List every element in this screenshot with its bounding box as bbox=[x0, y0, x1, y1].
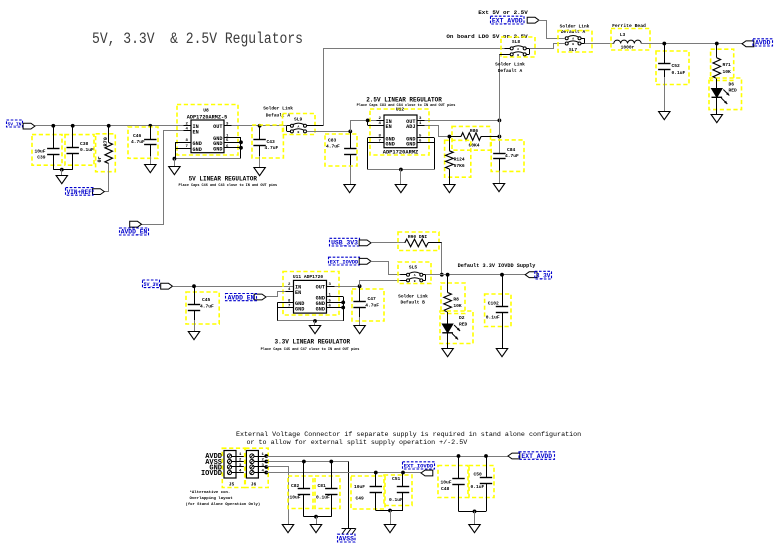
svg-text:10uF: 10uF bbox=[441, 480, 452, 486]
flag AVDD bbox=[742, 41, 754, 47]
flag EXT_IOVDD bottom bbox=[421, 470, 433, 476]
inductor L3 ferrite bead bbox=[611, 29, 650, 51]
diode D6 RED LED bbox=[709, 78, 742, 110]
node junction C43 tap bbox=[258, 124, 262, 128]
svg-text:B: B bbox=[572, 43, 574, 46]
wire SL7 out to L3 bbox=[585, 43, 614, 45]
svg-text:or to allow for external split: or to allow for external split supply op… bbox=[247, 439, 468, 447]
solder link SL5 bbox=[398, 262, 431, 284]
wire U11 OUT to SL5 B bbox=[335, 286, 360, 288]
svg-text:ADP1720ARMZ: ADP1720ARMZ bbox=[383, 149, 419, 155]
capacitor C83 bbox=[325, 134, 357, 166]
wire EXT_IOVDD to SL5 A bbox=[371, 262, 401, 275]
svg-text:Ext 5V or 2.5V: Ext 5V or 2.5V bbox=[478, 9, 528, 16]
wire C82 C81 ground rail bbox=[304, 516, 331, 518]
svg-text:D6: D6 bbox=[729, 81, 735, 87]
flag VIN+REF bbox=[93, 189, 105, 195]
wire C48 C50 ground rail bbox=[459, 511, 487, 513]
svg-text:Overlapping layout: Overlapping layout bbox=[190, 496, 234, 501]
ground for D6 bbox=[711, 115, 722, 123]
svg-text:C38: C38 bbox=[80, 141, 89, 147]
svg-text:B: B bbox=[517, 54, 519, 57]
capacitor C102 bbox=[485, 294, 511, 327]
svg-text:AVDD_EN: AVDD_EN bbox=[228, 294, 255, 301]
wire SL8 out to SL7 B bbox=[530, 44, 565, 49]
svg-text:6: 6 bbox=[226, 145, 229, 149]
svg-text:0.1uF: 0.1uF bbox=[471, 484, 485, 490]
wire L3 to AVDD flag bbox=[641, 43, 742, 45]
U8 pin 8 GND bbox=[175, 142, 191, 144]
net label IN_5V bbox=[143, 280, 160, 288]
svg-text:C83: C83 bbox=[328, 138, 337, 144]
capacitor C52 bbox=[656, 51, 689, 85]
capacitor C84 bbox=[491, 140, 524, 172]
ground for C102 bbox=[496, 349, 507, 357]
svg-text:4.7uF: 4.7uF bbox=[131, 139, 145, 145]
wire U12 OUT to 2.5V node bbox=[425, 120, 500, 122]
svg-text:RED: RED bbox=[729, 88, 738, 94]
svg-text:Solder Link: Solder Link bbox=[560, 23, 590, 29]
svg-text:4.7uF: 4.7uF bbox=[265, 145, 279, 151]
svg-text:A: A bbox=[572, 38, 574, 41]
node junction C83 tap bbox=[348, 130, 352, 134]
wire SL8 right bracket bbox=[526, 48, 529, 50]
ground for C83 bbox=[344, 185, 355, 193]
svg-text:External Voltage Connector if: External Voltage Connector if separate s… bbox=[236, 431, 581, 439]
connector J6 bbox=[245, 448, 268, 487]
net label USB_3V3 bbox=[330, 238, 360, 246]
svg-text:GND: GND bbox=[316, 306, 325, 312]
op-amp U11 regulator ADP1720 bbox=[283, 272, 339, 316]
svg-text:C46: C46 bbox=[133, 133, 142, 139]
svg-text:Default A: Default A bbox=[498, 68, 523, 74]
svg-text:U12: U12 bbox=[396, 107, 405, 113]
U12 pin 3 OUT bbox=[417, 120, 425, 122]
svg-text:SL8: SL8 bbox=[512, 39, 521, 45]
U11 pin 4 EN bbox=[286, 291, 294, 293]
node junction R70 tap bbox=[107, 124, 111, 128]
svg-text:SL7: SL7 bbox=[569, 47, 578, 53]
node junction C38 tap bbox=[71, 124, 75, 128]
wire U8 EN to AVDD_EN flag bbox=[142, 131, 184, 225]
flag USB_3V3 bbox=[359, 240, 371, 246]
solder link SL9 bbox=[283, 114, 316, 135]
wire U12 ADJ to divider bbox=[425, 126, 450, 137]
op-amp U8 regulator ADP1720ARMZ-5 bbox=[177, 105, 238, 156]
flag EXT_AVDD bottom bbox=[508, 453, 520, 459]
net label AVDD bbox=[753, 39, 773, 46]
wire C39 C38 ground rail bbox=[53, 169, 72, 171]
svg-text:GND: GND bbox=[213, 147, 222, 153]
svg-text:EN: EN bbox=[295, 290, 301, 296]
wire C49 C51 ground rail bbox=[376, 510, 403, 512]
net label AVDD_EN bbox=[120, 228, 149, 235]
U8 pin 1 GND bbox=[224, 137, 241, 139]
svg-text:Place Caps C45 and C47 close t: Place Caps C45 and C47 close to IN and O… bbox=[261, 347, 360, 352]
wire U12 right gnd bar bbox=[434, 138, 436, 170]
ground for C45 bbox=[188, 332, 199, 340]
svg-text:5V, 3.3V & 2.5V Regulators: 5V, 3.3V & 2.5V Regulators bbox=[92, 30, 303, 48]
svg-text:VIN+REF: VIN+REF bbox=[67, 189, 93, 196]
capacitor C46 bbox=[128, 127, 158, 158]
svg-text:SL9: SL9 bbox=[294, 117, 303, 123]
resistor R8 bbox=[441, 283, 465, 314]
svg-text:C81: C81 bbox=[318, 483, 327, 489]
svg-text:A: A bbox=[298, 125, 300, 128]
svg-text:4.7uF: 4.7uF bbox=[326, 143, 340, 149]
wire SL7 right bracket bbox=[581, 38, 584, 40]
svg-text:(for Stand Alone Operation Onl: (for Stand Alone Operation Only) bbox=[186, 502, 261, 507]
wire SL9 B up to U12 IN bbox=[351, 121, 377, 132]
ground for C46 bbox=[145, 165, 156, 173]
wire SL9 B out to 2.5V input bbox=[307, 131, 351, 133]
U11 pin 1 GND bbox=[327, 296, 344, 298]
capacitor C43 bbox=[252, 125, 283, 158]
wire SL9 A out up to 5V rail bbox=[307, 125, 324, 127]
svg-text:4.7uF: 4.7uF bbox=[200, 303, 214, 309]
svg-text:4.7uF: 4.7uF bbox=[505, 153, 519, 159]
net label EXT_AVDD bottom bbox=[519, 452, 555, 460]
svg-text:3_3V: 3_3V bbox=[536, 273, 551, 280]
input flag 5V_IN bbox=[23, 123, 35, 129]
wire U12 IN EN tie bbox=[367, 120, 369, 125]
wire R70 to VIN+REF flag bbox=[105, 164, 109, 192]
svg-text:6: 6 bbox=[419, 140, 422, 144]
svg-text:R86: R86 bbox=[470, 128, 479, 134]
svg-text:C47: C47 bbox=[368, 296, 377, 302]
wire USB_3V3 to R90 bbox=[371, 242, 405, 244]
svg-text:C43: C43 bbox=[267, 139, 276, 145]
svg-text:10K: 10K bbox=[723, 69, 732, 75]
net label IO_3V bbox=[535, 271, 552, 279]
svg-text:EXT_AVDD: EXT_AVDD bbox=[492, 18, 523, 25]
ground for U8 bbox=[169, 167, 180, 175]
svg-text:J5: J5 bbox=[229, 481, 235, 487]
U11 pin 8 GND bbox=[278, 302, 294, 304]
U12 pin 7 GND bbox=[368, 142, 384, 144]
input flag 3.3V section bbox=[161, 283, 173, 289]
svg-text:C52: C52 bbox=[672, 63, 681, 69]
U12 pin 5 GND bbox=[417, 137, 434, 139]
svg-text:1: 1 bbox=[329, 294, 332, 298]
diode D2 RED LED bbox=[440, 311, 473, 344]
svg-text:C49: C49 bbox=[356, 496, 365, 502]
svg-text:SL5: SL5 bbox=[409, 265, 418, 271]
svg-text:0.1uF: 0.1uF bbox=[672, 70, 686, 76]
svg-text:R124: R124 bbox=[454, 157, 465, 163]
svg-text:10K: 10K bbox=[453, 303, 462, 309]
svg-text:C51: C51 bbox=[392, 476, 401, 482]
U11 pin 5 GND bbox=[327, 302, 344, 304]
U12 pin 4 EN bbox=[368, 125, 384, 127]
wire IOVDD 3.3V rail bbox=[426, 274, 526, 276]
svg-text:3: 3 bbox=[239, 464, 242, 468]
svg-text:USB_3V3: USB_3V3 bbox=[331, 240, 358, 247]
svg-text:10uF: 10uF bbox=[290, 495, 301, 501]
svg-text:L3: L3 bbox=[620, 32, 626, 38]
svg-text:GND: GND bbox=[406, 142, 415, 148]
U11 pin 3 OUT bbox=[327, 286, 335, 288]
svg-text:C82: C82 bbox=[291, 483, 300, 489]
svg-text:57K6: 57K6 bbox=[454, 163, 465, 169]
U11 pin 7 GND bbox=[278, 307, 294, 309]
wire input to U11 IN bbox=[173, 286, 294, 288]
ground for C49 C51 bbox=[384, 525, 395, 533]
resistor R71 bbox=[711, 49, 734, 80]
U8 pin 6 GND bbox=[224, 147, 241, 149]
svg-text:5V LINEAR REGULATOR: 5V LINEAR REGULATOR bbox=[189, 176, 258, 183]
svg-text:EXT_AVDD: EXT_AVDD bbox=[521, 453, 552, 460]
U8 pin 4 EN bbox=[184, 130, 192, 132]
net label VIN+REF bbox=[66, 188, 94, 196]
svg-text:Place Caps C46 and C43 close t: Place Caps C46 and C43 close to IN and O… bbox=[178, 183, 277, 188]
ground for C84 bbox=[493, 184, 504, 192]
U12 pin 8 GND bbox=[368, 137, 384, 139]
flag EXT_AVDD bbox=[527, 17, 539, 23]
svg-text:3.3V LINEAR REGULATOR: 3.3V LINEAR REGULATOR bbox=[274, 338, 350, 345]
resistor R70 bbox=[96, 134, 116, 172]
svg-text:EN: EN bbox=[386, 124, 392, 130]
wire U8 right gnd bar bbox=[240, 137, 242, 158]
wire 5V_IN to U8 IN bbox=[35, 125, 184, 127]
ground for C43 bbox=[254, 168, 265, 176]
wire EXT_AVDD to SL7 bbox=[539, 21, 565, 39]
svg-text:EXT_IOVDD: EXT_IOVDD bbox=[404, 463, 434, 470]
ground for D2 bbox=[442, 349, 453, 357]
svg-text:GND: GND bbox=[193, 147, 202, 153]
wire 2.5V into SL8 B bbox=[499, 54, 510, 56]
svg-text:C45: C45 bbox=[202, 297, 211, 303]
svg-text:4.7uF: 4.7uF bbox=[365, 302, 379, 308]
wire U11 right gnd bar bbox=[343, 297, 345, 321]
svg-text:1000r: 1000r bbox=[621, 45, 635, 51]
U11 pin 6 GND bbox=[327, 307, 344, 309]
ground for C38 C39 bbox=[56, 176, 67, 184]
U8 pin 7 GND bbox=[175, 148, 191, 150]
svg-text:7: 7 bbox=[379, 140, 382, 144]
svg-text:ADJ: ADJ bbox=[406, 124, 415, 130]
net label AVSS bbox=[338, 534, 356, 542]
svg-text:Place Caps C83 and C84 close t: Place Caps C83 and C84 close to IN and O… bbox=[357, 103, 456, 108]
node junction C45 tap bbox=[192, 284, 196, 288]
wire U12 ground rail bbox=[368, 169, 434, 171]
svg-text:C84: C84 bbox=[507, 147, 516, 153]
ground for R124 bbox=[444, 185, 455, 193]
net label EXT_IOVDD bbox=[329, 257, 360, 265]
flag AVDD_EN 3.3V bbox=[254, 294, 266, 300]
svg-text:Solder Link: Solder Link bbox=[495, 62, 525, 68]
wire U11 left gnd bar bbox=[277, 302, 279, 321]
svg-text:0.1uF: 0.1uF bbox=[80, 147, 94, 153]
svg-text:J6: J6 bbox=[251, 481, 257, 487]
svg-text:0r: 0r bbox=[97, 156, 103, 162]
resistor R124 bbox=[445, 140, 471, 177]
svg-text:R70: R70 bbox=[103, 137, 109, 146]
svg-text:R71: R71 bbox=[723, 62, 732, 68]
svg-text:OUT: OUT bbox=[316, 285, 325, 291]
resistor R86 bbox=[452, 126, 491, 150]
solder link SL7 bbox=[558, 31, 592, 52]
resistor R90 DNI bbox=[398, 232, 439, 251]
node junction C46 tap bbox=[148, 124, 152, 128]
svg-text:AVDD_EN: AVDD_EN bbox=[121, 229, 148, 236]
svg-text:A: A bbox=[414, 274, 416, 277]
capacitor C39 bbox=[32, 135, 62, 166]
svg-text:C48: C48 bbox=[441, 486, 450, 492]
wire AVSS down to symbol bbox=[348, 462, 350, 529]
flag AVDD_EN bbox=[130, 221, 142, 227]
capacitor C51 bbox=[384, 475, 412, 506]
solder link SL8 bbox=[501, 37, 535, 57]
svg-text:5V_3V: 5V_3V bbox=[143, 282, 158, 288]
ground for U11 bbox=[309, 326, 320, 334]
capacitor C50 bbox=[469, 466, 494, 498]
op-amp U12 regulator ADP1720ARMZ bbox=[370, 109, 429, 155]
net label AVDD_EN 3.3V bbox=[226, 294, 257, 301]
capacitor C38 bbox=[65, 135, 94, 166]
svg-text:Solder Link: Solder Link bbox=[263, 105, 293, 111]
svg-text:OUT: OUT bbox=[213, 124, 222, 130]
U12 pin 2 IN bbox=[377, 120, 385, 122]
svg-text:B: B bbox=[414, 280, 416, 283]
wire U11 ground rail bbox=[278, 320, 344, 322]
wire 2.5V rail vertical to SL8 bbox=[499, 54, 501, 153]
wire R90 down to IOVDD rail bbox=[441, 243, 443, 275]
capacitor C45 bbox=[186, 292, 219, 324]
wire AVDD rail bbox=[266, 456, 508, 458]
U12 pin 1 ADJ bbox=[417, 125, 425, 127]
svg-text:A: A bbox=[517, 48, 519, 51]
svg-text:3: 3 bbox=[262, 464, 265, 468]
wire IOVDD rail bbox=[266, 472, 421, 474]
AVSS analog ground symbol bbox=[342, 529, 357, 535]
svg-text:U8: U8 bbox=[203, 108, 209, 114]
node junction C39 tap bbox=[51, 124, 55, 128]
flag EXT_IOVDD bbox=[359, 258, 371, 264]
wire U8 ground rail bbox=[174, 158, 241, 160]
capacitor C49 bbox=[351, 476, 385, 509]
U8 pin 5 GND bbox=[224, 142, 241, 144]
svg-text:10uF: 10uF bbox=[354, 484, 365, 490]
svg-text:GND: GND bbox=[386, 142, 395, 148]
net label 5V_IN bbox=[7, 120, 23, 127]
svg-text:Solder Link: Solder Link bbox=[398, 294, 428, 300]
svg-text:D2: D2 bbox=[459, 315, 465, 321]
svg-text:U11 ADP1720: U11 ADP1720 bbox=[293, 274, 324, 280]
U8 pin 3 OUT bbox=[224, 125, 232, 127]
wire U11 EN to AVDD_EN flag bbox=[267, 292, 286, 297]
svg-text:0.1uF: 0.1uF bbox=[316, 495, 330, 501]
wire AVSS rail bbox=[266, 461, 348, 463]
svg-text:C39: C39 bbox=[37, 154, 46, 160]
svg-text:R8: R8 bbox=[453, 297, 459, 303]
svg-text:EN: EN bbox=[193, 130, 199, 136]
capacitor C48 bbox=[438, 466, 468, 498]
capacitor C81 bbox=[315, 476, 340, 509]
ground for C82 C81 bbox=[310, 525, 321, 533]
wire U8 left gnd bar bbox=[175, 142, 177, 158]
flag IO_3V bbox=[525, 272, 537, 278]
U8 pin 2 IN bbox=[184, 125, 192, 127]
svg-text:Default B: Default B bbox=[401, 300, 426, 306]
net label EXT_IOVDD bottom bbox=[403, 462, 435, 469]
ground for C47 bbox=[354, 326, 365, 334]
capacitor C47 bbox=[352, 289, 384, 321]
svg-text:5V_IN: 5V_IN bbox=[8, 122, 22, 128]
svg-text:GND: GND bbox=[295, 306, 304, 312]
wire U8 OUT to SL9 bbox=[232, 125, 288, 127]
svg-text:10uF: 10uF bbox=[34, 149, 45, 155]
svg-text:*Alternative con.: *Alternative con. bbox=[190, 490, 231, 495]
svg-text:0.1uF: 0.1uF bbox=[389, 497, 403, 503]
ground for U12 bbox=[395, 185, 406, 193]
U12 pin 6 GND bbox=[417, 142, 434, 144]
svg-text:C50: C50 bbox=[474, 472, 483, 478]
svg-text:AVDD: AVDD bbox=[755, 40, 771, 47]
connector J5 bbox=[222, 448, 244, 487]
ground for C48 C50 bbox=[469, 525, 480, 533]
ground for GND rail bbox=[282, 525, 293, 533]
svg-text:IOVDD: IOVDD bbox=[201, 470, 222, 478]
wire GND rail bbox=[267, 467, 289, 525]
svg-text:B: B bbox=[298, 131, 300, 134]
svg-text:2.5V LINEAR REGULATOR: 2.5V LINEAR REGULATOR bbox=[366, 97, 442, 104]
svg-text:AVSS: AVSS bbox=[339, 536, 355, 543]
ground for C52 bbox=[659, 112, 670, 120]
capacitor C82 bbox=[288, 476, 313, 509]
svg-text:EXT_IOVDD: EXT_IOVDD bbox=[330, 260, 358, 266]
svg-text:Default 3.3V IOVDD Supply: Default 3.3V IOVDD Supply bbox=[458, 263, 537, 269]
svg-text:C102: C102 bbox=[488, 301, 499, 307]
svg-text:R90 DNI: R90 DNI bbox=[408, 234, 428, 240]
svg-text:RED: RED bbox=[459, 321, 468, 327]
wire U12 left gnd bar bbox=[367, 138, 369, 170]
net label EXT_AVDD bbox=[491, 16, 525, 24]
svg-text:0.1uF: 0.1uF bbox=[486, 314, 500, 320]
